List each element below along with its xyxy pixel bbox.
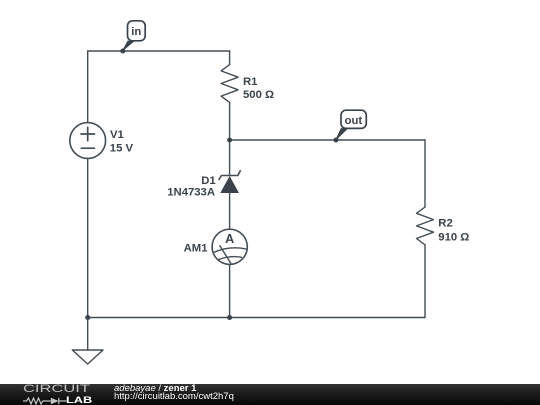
svg-text:1N4733A: 1N4733A [167, 186, 215, 198]
svg-text:910 Ω: 910 Ω [438, 231, 469, 243]
svg-text:out: out [345, 115, 363, 127]
svg-text:AM1: AM1 [184, 242, 208, 254]
svg-text:in: in [131, 26, 141, 38]
svg-text:D1: D1 [201, 175, 215, 187]
svg-text:500 Ω: 500 Ω [243, 89, 274, 101]
svg-text:A: A [225, 232, 234, 246]
svg-text:R2: R2 [438, 218, 452, 230]
svg-text:15 V: 15 V [110, 143, 134, 155]
svg-text:R1: R1 [243, 76, 257, 88]
svg-text:V1: V1 [110, 129, 124, 141]
